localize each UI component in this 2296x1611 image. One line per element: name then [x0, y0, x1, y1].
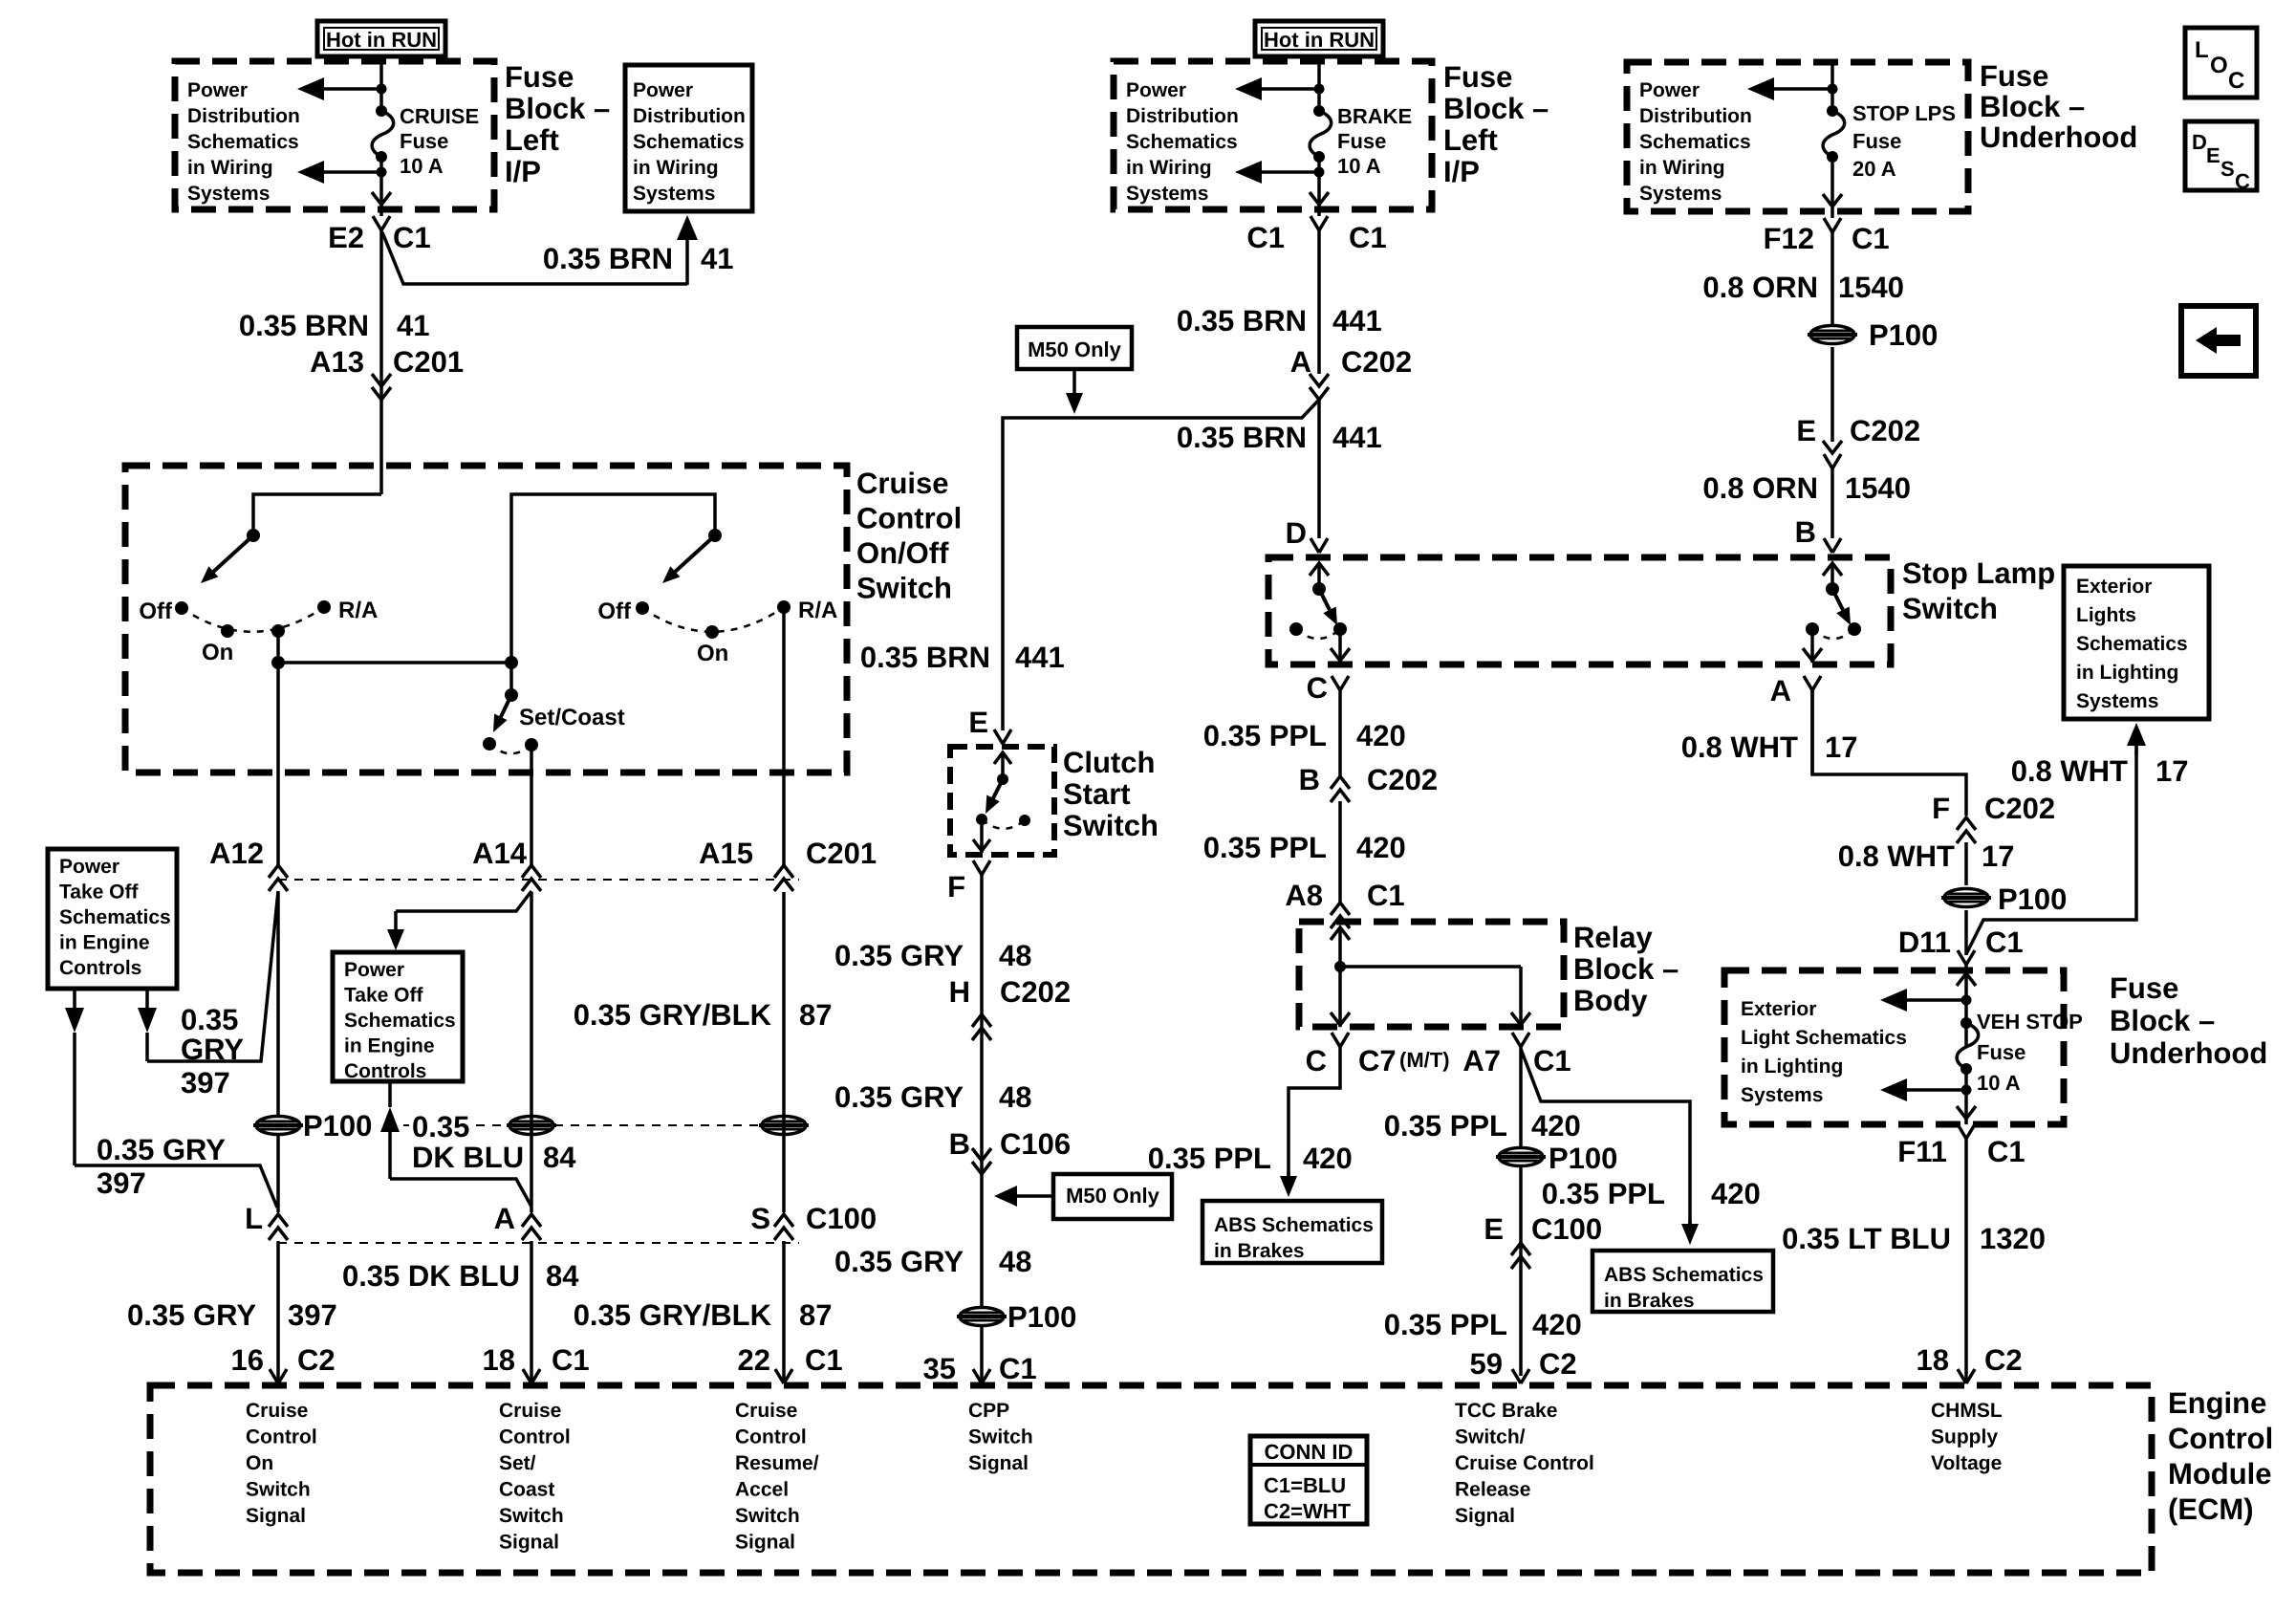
ABS schematics box 1: [1202, 1201, 1382, 1263]
svg-text:Fuse: Fuse: [505, 60, 574, 94]
arrow to power distribution (lower left): [297, 161, 324, 184]
svg-text:C1: C1: [552, 1343, 590, 1377]
svg-text:Hot in RUN: Hot in RUN: [326, 28, 437, 52]
stop left dashed arc: [1296, 629, 1340, 639]
svg-text:Relay: Relay: [1573, 921, 1653, 954]
connector B C106: [972, 1148, 991, 1161]
svg-text:(ECM): (ECM): [2168, 1492, 2254, 1526]
svg-text:A: A: [1770, 674, 1791, 708]
svg-text:Controls: Controls: [344, 1060, 426, 1082]
svg-text:C1: C1: [1985, 925, 2024, 959]
svg-text:GRY: GRY: [181, 1033, 244, 1066]
svg-text:DK BLU: DK BLU: [412, 1141, 524, 1174]
wire L to ECM: [276, 1241, 280, 1383]
svg-text:20 A: 20 A: [1852, 157, 1896, 181]
svg-text:1540: 1540: [1838, 271, 1904, 304]
stop right exit wire: [1810, 629, 1814, 663]
connector F (clutch): [973, 860, 990, 875]
left switch Off contact: [175, 601, 188, 615]
svg-text:0.35 GRY: 0.35 GRY: [834, 1245, 964, 1278]
connector A14: [522, 865, 541, 878]
pass-through P100 (PPL): [1496, 1148, 1546, 1166]
svg-text:Off: Off: [139, 599, 173, 624]
wire to set/coast: [278, 661, 511, 664]
svg-text:C2: C2: [297, 1343, 336, 1377]
arrow into ABS box 2: [1681, 1224, 1699, 1245]
junction node: [1314, 84, 1325, 95]
svg-text:C1: C1: [1852, 222, 1890, 255]
svg-text:Power: Power: [344, 959, 404, 981]
svg-text:0.35 GRY: 0.35 GRY: [127, 1298, 256, 1332]
stop right pivot: [1826, 582, 1839, 596]
svg-text:C1: C1: [999, 1352, 1037, 1385]
svg-text:in Engine: in Engine: [344, 1035, 435, 1057]
stop right dashed arc: [1812, 629, 1854, 639]
svg-text:A14: A14: [472, 837, 528, 870]
svg-text:420: 420: [1711, 1177, 1761, 1210]
svg-text:Release: Release: [1455, 1479, 1530, 1501]
connector C (relay): [1332, 1033, 1349, 1047]
svg-text:0.8 ORN: 0.8 ORN: [1702, 471, 1818, 505]
svg-text:A13: A13: [310, 345, 364, 379]
svg-text:Take Off: Take Off: [59, 882, 139, 903]
connector pin 35: [973, 1369, 990, 1383]
svg-text:Schematics: Schematics: [344, 1010, 456, 1032]
power label: Hot in RUN (left): [317, 21, 445, 56]
connector C1/C1: [1317, 209, 1321, 216]
svg-text:B: B: [1299, 763, 1320, 796]
svg-text:in Wiring: in Wiring: [1126, 157, 1212, 179]
svg-text:Cruise: Cruise: [499, 1400, 561, 1422]
svg-text:0.35 BRN: 0.35 BRN: [860, 641, 990, 674]
svg-text:84: 84: [546, 1259, 579, 1293]
svg-text:Cruise Control: Cruise Control: [1455, 1452, 1594, 1474]
svg-text:Fuse: Fuse: [1852, 129, 1901, 153]
svg-text:VEH STOP: VEH STOP: [1977, 1010, 2083, 1034]
svg-text:Fuse: Fuse: [1443, 60, 1512, 94]
svg-text:0.35 BRN: 0.35 BRN: [543, 242, 673, 275]
svg-text:Signal: Signal: [499, 1532, 559, 1554]
svg-text:F: F: [947, 870, 965, 903]
svg-text:Fuse: Fuse: [1977, 1040, 2025, 1064]
svg-text:C1: C1: [1533, 1044, 1571, 1078]
svg-text:I/P: I/P: [505, 155, 541, 188]
ABS schematics box 2: [1592, 1251, 1773, 1312]
wire arrow at fuse block exit: [372, 192, 391, 205]
svg-text:C202: C202: [1850, 414, 1920, 447]
svg-text:C202: C202: [1367, 763, 1438, 796]
clutch contact L: [976, 814, 987, 825]
svg-text:On: On: [202, 640, 233, 665]
svg-text:16: 16: [231, 1343, 264, 1377]
svg-text:Cruise: Cruise: [856, 467, 948, 500]
connector pin 16: [270, 1369, 287, 1383]
pass-through P100 (A15 wire): [759, 1117, 809, 1135]
junction node: [377, 167, 387, 178]
svg-text:(M/T): (M/T): [1399, 1048, 1450, 1072]
svg-text:Distribution: Distribution: [1126, 105, 1239, 127]
svg-text:Control: Control: [856, 502, 962, 535]
connector A7 C1: [1512, 1033, 1529, 1047]
clutch start switch dashed box: [950, 747, 1054, 855]
svg-text:E: E: [2206, 143, 2220, 167]
svg-text:0.35 PPL: 0.35 PPL: [1542, 1177, 1665, 1210]
connector B (stop lamp): [1824, 538, 1841, 553]
svg-text:in Brakes: in Brakes: [1214, 1240, 1305, 1262]
arrow into power distribution schematics box: [677, 215, 698, 240]
svg-text:0.35 BRN: 0.35 BRN: [1177, 304, 1307, 337]
wire 397 lower: [75, 1165, 277, 1208]
svg-text:in Lighting: in Lighting: [1741, 1056, 1843, 1078]
connector pin 18: [523, 1369, 540, 1383]
arrow to power distribution (middle upper): [1235, 77, 1262, 100]
svg-text:84: 84: [543, 1141, 576, 1174]
left switch center contact: [271, 624, 285, 638]
connector F11 C1: [1958, 1124, 1975, 1139]
svg-text:E: E: [1484, 1212, 1504, 1246]
pass-through P100 (GRY): [957, 1308, 1007, 1326]
svg-text:C: C: [2228, 68, 2244, 94]
svg-text:C202: C202: [1000, 975, 1071, 1009]
svg-text:420: 420: [1303, 1142, 1353, 1175]
svg-text:L: L: [2195, 37, 2209, 63]
svg-text:E2: E2: [328, 221, 364, 254]
svg-text:0.8 WHT: 0.8 WHT: [2011, 754, 2128, 788]
svg-text:Underhood: Underhood: [2110, 1036, 2267, 1070]
svg-text:in Wiring: in Wiring: [187, 157, 273, 179]
svg-text:CONN ID: CONN ID: [1265, 1440, 1354, 1464]
engine control module dashed box: [150, 1385, 2152, 1573]
svg-text:C1: C1: [1987, 1135, 2025, 1168]
connector H C202: [972, 1014, 991, 1027]
svg-text:48: 48: [999, 1245, 1031, 1278]
relay wire horizontal: [1340, 965, 1521, 969]
svg-text:BRAKE: BRAKE: [1337, 104, 1412, 128]
clutch entry arrow: [994, 752, 1011, 764]
svg-text:A12: A12: [209, 837, 264, 870]
left switch On contact: [221, 624, 234, 638]
branch to exterior lights: [1966, 746, 2136, 954]
svg-text:C201: C201: [393, 345, 464, 379]
svg-text:C1: C1: [1246, 221, 1285, 254]
svg-text:Schematics: Schematics: [1639, 131, 1751, 153]
left switch pivot: [247, 529, 260, 542]
wire 397 upper: [147, 891, 278, 1061]
entry arrow B: [1823, 563, 1842, 576]
wire center contact down: [276, 631, 280, 663]
svg-text:C: C: [1306, 1044, 1327, 1078]
svg-text:0.35 GRY: 0.35 GRY: [97, 1133, 226, 1166]
svg-text:Systems: Systems: [1639, 183, 1722, 205]
fuse block left I/P dashed box (middle): [1114, 61, 1432, 209]
svg-text:0.35 GRY: 0.35 GRY: [834, 1080, 964, 1114]
svg-text:P100: P100: [1007, 1300, 1076, 1334]
svg-text:D: D: [1286, 516, 1307, 550]
svg-text:A: A: [494, 1202, 515, 1235]
wire: fuse to box bottom (right): [1830, 157, 1834, 211]
arrow into exterior lights box: [2127, 723, 2146, 746]
arrow into PTO box 2 top: [387, 929, 404, 950]
svg-text:A15: A15: [699, 837, 753, 870]
svg-text:Switch/: Switch/: [1455, 1426, 1526, 1448]
svg-text:On: On: [697, 641, 728, 666]
svg-text:M50 Only: M50 Only: [1028, 337, 1122, 361]
svg-text:Switch: Switch: [968, 1426, 1033, 1448]
wire F to P100: [1964, 842, 1968, 885]
fuse block left I/P dashed box: [175, 61, 494, 209]
exit arrow (veh stop): [1957, 1106, 1976, 1119]
entry arrow D: [1310, 563, 1329, 576]
svg-text:Switch: Switch: [1063, 809, 1159, 842]
svg-text:M50 Only: M50 Only: [1066, 1184, 1160, 1208]
svg-text:Exterior: Exterior: [2076, 576, 2152, 598]
svg-text:Schematics: Schematics: [187, 131, 299, 153]
svg-text:Block –: Block –: [1443, 92, 1549, 125]
connector F C202: [1957, 817, 1976, 830]
svg-text:Fuse: Fuse: [2110, 971, 2178, 1005]
connector E C202 (right): [1823, 441, 1842, 453]
svg-text:I/P: I/P: [1443, 155, 1480, 188]
right switch Off contact: [636, 601, 649, 615]
svg-text:Signal: Signal: [246, 1505, 306, 1527]
right switch pivot: [708, 529, 722, 542]
connector F12/C1: [1830, 211, 1834, 218]
svg-text:O: O: [2210, 53, 2228, 78]
DESC icon box: [2185, 121, 2257, 190]
exterior lights schematics box: [2064, 566, 2209, 719]
connector E (clutch): [994, 729, 1011, 744]
pass-through P100 (A14 wire): [507, 1117, 556, 1135]
svg-text:Schematics: Schematics: [2076, 633, 2188, 655]
svg-text:C2: C2: [1984, 1343, 2023, 1377]
wire to stop lamp switch D: [1317, 400, 1321, 538]
svg-text:420: 420: [1356, 831, 1406, 864]
stop right contact R: [1848, 622, 1861, 636]
svg-text:Stop Lamp: Stop Lamp: [1902, 556, 2055, 590]
power distribution schematics solid box: [625, 65, 752, 211]
svg-text:397: 397: [97, 1166, 146, 1200]
svg-text:Systems: Systems: [187, 183, 270, 205]
junction node: [1828, 84, 1838, 95]
svg-text:10 A: 10 A: [1337, 154, 1381, 178]
svg-text:S: S: [750, 1202, 770, 1235]
set/coast wire down: [509, 663, 513, 695]
left switch R/A contact: [317, 600, 331, 614]
svg-text:D: D: [2192, 130, 2207, 154]
connector plane C100 dashed line: [278, 1242, 799, 1244]
right switch dashed arc: [642, 607, 784, 632]
svg-text:Take Off: Take Off: [344, 985, 423, 1007]
svg-text:in Lighting: in Lighting: [2076, 662, 2178, 684]
right switch lever: [675, 535, 715, 572]
svg-text:Schematics: Schematics: [1126, 131, 1238, 153]
wire S to ECM: [782, 1241, 786, 1383]
arrow from PTO box 2 bottom: [388, 1081, 392, 1107]
fuse BRAKE 10A: [1313, 105, 1325, 117]
stop left lever: [1319, 589, 1330, 610]
arrow from M50 Only box: [1066, 393, 1083, 414]
svg-text:1540: 1540: [1845, 471, 1911, 505]
svg-text:Power: Power: [59, 856, 119, 878]
svg-text:17: 17: [1825, 730, 1857, 764]
svg-text:Block –: Block –: [2110, 1004, 2215, 1037]
svg-text:0.35 BRN: 0.35 BRN: [239, 309, 369, 342]
arrow to power distribution (right): [1747, 77, 1774, 100]
svg-text:C: C: [1307, 671, 1328, 705]
right switch R/A contact: [777, 600, 791, 614]
svg-text:C1: C1: [805, 1343, 843, 1377]
clutch contact R: [1019, 815, 1030, 826]
svg-text:Set/: Set/: [499, 1452, 536, 1474]
svg-text:48: 48: [999, 939, 1031, 972]
svg-text:0.35: 0.35: [412, 1110, 469, 1143]
fuse CRUISE 10A: [376, 105, 387, 117]
svg-text:Set/Coast: Set/Coast: [519, 705, 625, 730]
svg-text:C1=BLU: C1=BLU: [1264, 1473, 1346, 1497]
svg-text:A7: A7: [1462, 1044, 1501, 1078]
set/coast right contact: [525, 738, 538, 751]
svg-text:Coast: Coast: [499, 1479, 554, 1501]
fuse block underhood dashed box (bottom): [1724, 970, 2064, 1124]
svg-text:Systems: Systems: [633, 183, 715, 205]
svg-text:0.35 BRN: 0.35 BRN: [1177, 421, 1307, 454]
svg-text:Control: Control: [246, 1426, 317, 1448]
svg-text:87: 87: [799, 998, 832, 1032]
connector C201 A13: [372, 374, 391, 386]
svg-text:Exterior: Exterior: [1741, 998, 1816, 1020]
svg-text:C2: C2: [1539, 1347, 1577, 1381]
wire to D11: [1964, 910, 1968, 955]
svg-text:Block –: Block –: [1573, 952, 1679, 986]
svg-text:420: 420: [1532, 1308, 1582, 1341]
fuse VEH STOP 10A: [1960, 1017, 1972, 1029]
pass-through P100 (A12 wire): [253, 1117, 303, 1135]
svg-text:C2=WHT: C2=WHT: [1264, 1499, 1352, 1523]
svg-text:H: H: [949, 975, 970, 1009]
connector C: [1332, 676, 1349, 690]
arrow left (veh stop lower): [1880, 1078, 1907, 1101]
svg-text:A: A: [1290, 345, 1311, 379]
stop left contact L: [1289, 622, 1303, 636]
svg-text:Left: Left: [505, 123, 559, 157]
set/coast left contact: [483, 737, 496, 751]
svg-text:Switch: Switch: [1902, 592, 1998, 625]
svg-text:Block –: Block –: [505, 92, 610, 125]
svg-text:Lights: Lights: [2076, 604, 2136, 626]
right switch On contact: [705, 625, 719, 639]
svg-text:CPP: CPP: [968, 1400, 1009, 1422]
svg-text:87: 87: [799, 1298, 832, 1332]
svg-text:Systems: Systems: [1126, 183, 1208, 205]
svg-text:E: E: [968, 706, 988, 739]
svg-text:0.35 PPL: 0.35 PPL: [1384, 1109, 1507, 1143]
wire up and over to right switch: [511, 494, 715, 663]
svg-text:D11: D11: [1898, 925, 1951, 959]
connector B C202: [1331, 776, 1350, 789]
arrow from M50 Only box (bottom): [994, 1186, 1017, 1207]
connector S: [774, 1214, 793, 1227]
svg-text:C100: C100: [806, 1202, 877, 1235]
junction node: [1961, 1085, 1972, 1096]
svg-text:17: 17: [2155, 754, 2188, 788]
svg-text:0.35 GRY/BLK: 0.35 GRY/BLK: [574, 998, 772, 1032]
svg-text:L: L: [245, 1202, 263, 1235]
set/coast pivot: [505, 688, 518, 702]
wire: Hot in RUN to fuse (middle): [1317, 56, 1321, 111]
svg-text:Distribution: Distribution: [1639, 105, 1752, 127]
svg-text:420: 420: [1531, 1109, 1581, 1143]
connector D: [1310, 538, 1328, 553]
svg-text:Block –: Block –: [1980, 90, 2085, 123]
stop right contact L: [1806, 622, 1819, 636]
svg-text:18: 18: [1917, 1343, 1949, 1377]
svg-text:441: 441: [1332, 304, 1382, 337]
svg-text:F: F: [1932, 792, 1950, 825]
connector pin 18 (right): [1958, 1369, 1975, 1383]
svg-text:48: 48: [999, 1080, 1031, 1114]
wire: fuse to box bottom: [379, 157, 383, 209]
wire top stub: [1830, 62, 1834, 111]
svg-text:Off: Off: [597, 599, 632, 624]
svg-text:Cruise: Cruise: [246, 1400, 308, 1422]
svg-text:Distribution: Distribution: [633, 105, 746, 127]
svg-text:59: 59: [1470, 1347, 1503, 1381]
svg-text:P100: P100: [303, 1109, 372, 1143]
svg-text:Power: Power: [187, 79, 248, 101]
clutch dashed arc: [982, 819, 1025, 829]
wire A14 down: [530, 745, 533, 865]
connector C202 A: [1310, 374, 1329, 386]
svg-text:Power: Power: [1639, 79, 1700, 101]
connector A (stop lamp): [1804, 676, 1821, 690]
M50 Only box (bottom): [1053, 1174, 1172, 1219]
stop lamp switch dashed box: [1268, 557, 1891, 664]
svg-text:18: 18: [483, 1343, 515, 1377]
back arrow icon box: [2181, 306, 2256, 376]
svg-text:0.8 ORN: 0.8 ORN: [1702, 271, 1818, 304]
connector A15: [774, 865, 793, 878]
wire to A8: [1338, 801, 1342, 903]
svg-text:1320: 1320: [1980, 1222, 2046, 1255]
svg-text:Body: Body: [1573, 984, 1648, 1017]
svg-text:TCC Brake: TCC Brake: [1455, 1400, 1557, 1422]
svg-text:C1: C1: [393, 221, 431, 254]
svg-text:0.35 GRY/BLK: 0.35 GRY/BLK: [574, 1298, 772, 1332]
relay entry arrow: [1331, 927, 1350, 940]
svg-text:0.35 GRY: 0.35 GRY: [834, 939, 964, 972]
svg-text:Distribution: Distribution: [187, 105, 300, 127]
svg-text:Fuse: Fuse: [1980, 59, 2048, 93]
svg-text:CRUISE: CRUISE: [400, 104, 479, 128]
connector plane C201 dashed line: [278, 879, 799, 881]
connector plane P100 dashed line: [387, 1124, 409, 1126]
junction node: [377, 84, 387, 95]
svg-text:On/Off: On/Off: [856, 536, 949, 570]
svg-text:22: 22: [738, 1343, 770, 1377]
wire: fuse to box bottom (middle): [1317, 157, 1321, 209]
svg-text:B: B: [949, 1127, 970, 1161]
svg-text:Schematics: Schematics: [59, 906, 171, 928]
svg-text:Hot in RUN: Hot in RUN: [1264, 28, 1375, 52]
relay block body dashed box: [1299, 922, 1564, 1027]
wire: Hot in RUN to fuse: [379, 56, 383, 111]
svg-text:C1: C1: [1349, 221, 1387, 254]
left switch lever: [213, 535, 253, 572]
wire A14 to C100: [530, 892, 533, 1212]
relay junction node: [1334, 961, 1346, 972]
svg-text:Systems: Systems: [2076, 690, 2158, 712]
svg-text:E: E: [1796, 414, 1816, 447]
